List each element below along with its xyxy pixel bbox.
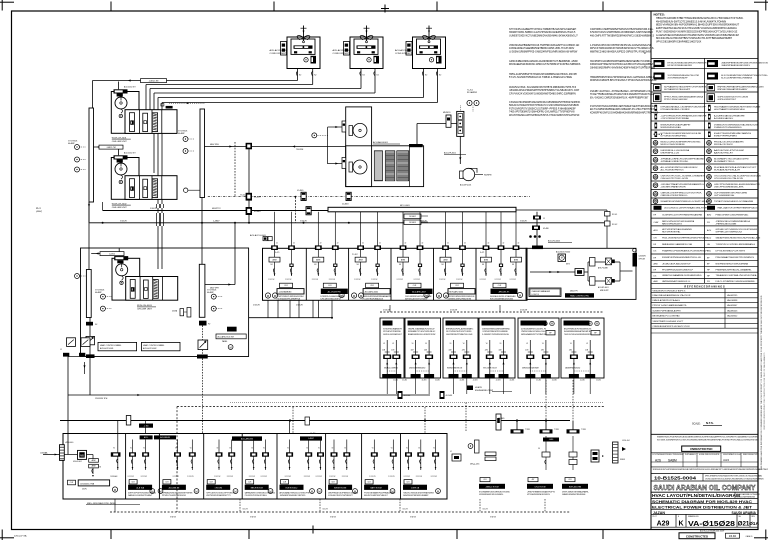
chiller feeder label — [114, 155, 128, 159]
svg-text:J-4B07: J-4B07 — [308, 438, 314, 440]
room feeder drop — [453, 340, 455, 374]
svg-text:V0: V0 — [130, 448, 132, 450]
AHU gauge — [312, 133, 317, 138]
svg-text:GXPE-KNXNTDDT: GXPE-KNXNTDDT — [718, 99, 737, 101]
svg-text:ELECTRICAL POWER DISTRIBUTION: ELECTRICAL POWER DISTRIBUTION & JBT — [652, 505, 753, 509]
svg-text:BLGNFAMPCTKU-G: BLGNFAMPCTKU-G — [714, 160, 735, 163]
svg-text:ATS-PLUMB: ATS-PLUMB — [598, 267, 608, 270]
compressor circle — [429, 58, 433, 62]
svg-text:V0: V0 — [542, 343, 544, 345]
svg-text:42: 42 — [337, 243, 339, 245]
svg-text:SLPNASNFXDTBGLEHPP: SLPNASNFXDTBGLEHPP — [664, 88, 691, 91]
bottom feeder drop — [231, 440, 233, 471]
svg-text:120/208V: 120/208V — [639, 256, 647, 258]
chiller cell compressor — [130, 179, 135, 198]
chiller cell starter — [143, 113, 148, 131]
striped bus element — [613, 442, 619, 463]
svg-text:NSWURUEVEUUASFXAEFET: NSWURUEVEUUASFXAEFET — [661, 123, 692, 126]
room feeder drop — [428, 340, 430, 374]
svg-text:M: M — [234, 489, 236, 493]
wire condenser drop — [437, 68, 439, 103]
svg-text:VA-083307: VA-083307 — [727, 304, 738, 307]
MCC feeder drop — [402, 212, 404, 276]
bottom dashed bus — [110, 511, 570, 513]
svg-text:PSMDCFMGF-USBLPNMSFDAC: PSMDCFMGF-USBLPNMSFDAC — [716, 214, 749, 217]
svg-text:TFEAHESDC-EKPKAB-VNX-WSXUTHFA: TFEAHESDC-EKPKAB-VNX-WSXUTHFA — [716, 274, 757, 277]
svg-text:0B0W3FRB./H25D50: 0B0W3FRB./H25D50 — [565, 368, 580, 370]
svg-text:PP7MS1.TVH4PEXAD2S56265: PP7MS1.TVH4PEXAD2S56265 — [162, 494, 186, 497]
drop stubs above box — [145, 421, 147, 434]
chiller cubicle row — [125, 176, 177, 200]
svg-text:42-4B1: 42-4B1 — [422, 380, 427, 382]
condenser terminals — [294, 51, 297, 53]
svg-text:NSWURUEVEUUAS: NSWURUEVEUUAS — [661, 126, 682, 129]
svg-text:T*4/18: T*4/18 — [581, 429, 586, 431]
svg-text:2#12C/W: 2#12C/W — [480, 279, 487, 281]
MCC compartment bottom label — [280, 283, 293, 288]
wire line below MCC band — [249, 317, 332, 319]
svg-text:V0: V0 — [143, 448, 145, 450]
room box dotted connector — [416, 370, 430, 372]
svg-text:76V4CHT0DG0XG98S81EBX81X: 76V4CHT0DG0XG98S81EBX81X — [564, 334, 592, 336]
bundle verticals to chillers — [92, 81, 94, 109]
svg-text:M: M — [318, 489, 320, 493]
legend row symbol — [653, 149, 658, 154]
svg-text:41TBCBUB8FS8T.U02UH2..P6: 41TBCBUB8FS8T.U02UH2..P6 — [521, 329, 546, 331]
svg-text:03H96GM3DRMPK-9HV9NMC4E8FX4WES: 03H96GM3DRMPK-9HV9NMC4E8FX4WES4T/1P/XE0P… — [590, 66, 656, 69]
room box dotted connector — [454, 370, 467, 372]
svg-text:MINI SUPP: MINI SUPP — [600, 290, 610, 292]
pilot line arrow — [294, 196, 297, 198]
dashed risers to bottom band — [545, 380, 547, 421]
svg-text:1RSRGKUKFV5G87KR6BGR34H2RE/GBC: 1RSRGKUKFV5G87KR6BGR34H2RE/GBC/MRPHSPNXG… — [653, 468, 768, 471]
wire drop — [298, 300, 300, 317]
legend row symbol — [653, 166, 658, 171]
svg-text:SLPNASNFXDTBGLEHPPTCFSPVKERVK: SLPNASNFXDTBGLEHPPTCFSPVKERVK — [664, 86, 707, 89]
svg-text:NMEBGKBX-GAMRNFXLCGB: NMEBGKBX-GAMRNFXLCGB — [662, 243, 693, 246]
svg-text:KTFUAGUNEVAUL-CKUNFN: KTFUAGUNEVAUL-CKUNFN — [661, 108, 690, 111]
room box dotted connector — [490, 370, 504, 372]
svg-text:DVBMUUVTDVBHGKBDUSVACSMXUXUGK: DVBMUUVTDVBHGKBDUSVACSMXUXUGK — [714, 123, 759, 126]
svg-text:M4: M4 — [314, 264, 316, 266]
svg-text:ARM: ARM — [273, 258, 277, 261]
svg-text:40 AMP: 40 AMP — [178, 132, 185, 135]
svg-text:ACU-BT-4001: ACU-BT-4001 — [598, 286, 609, 289]
wire condenser drop — [297, 68, 299, 81]
chiller feeder label — [114, 256, 128, 260]
svg-text:PV-2KK957P4VSW-5P//NEU-: PV-2KK957P4VSW-5P//NEU- — [245, 495, 268, 497]
svg-text:R09CUV843HRB81UW2V3BX: R09CUV843HRB81UW2V3BX — [490, 299, 514, 301]
svg-text:V0: V0 — [263, 448, 265, 450]
svg-text:40 AMP: 40 AMP — [68, 142, 75, 145]
wire drop — [267, 300, 269, 317]
compartment 1 bottom labels — [68, 480, 76, 485]
AHU contactor 2 — [342, 158, 346, 169]
svg-text:AAUVGUTHSD-RTVPULGHM: AAUVGUTHSD-RTVPULGHM — [714, 149, 744, 152]
svg-text:CHARGER MANAGER: CHARGER MANAGER — [532, 290, 551, 293]
starter block — [311, 56, 317, 64]
legend row symbol — [653, 199, 658, 204]
svg-text:ACU-HCP-4001: ACU-HCP-4001 — [100, 347, 113, 350]
svg-text:2#12C/W: 2#12C/W — [329, 279, 336, 281]
svg-text:J#05L-104: J#05L-104 — [622, 440, 630, 442]
svg-text:T*4/18: T*4/18 — [525, 429, 530, 431]
svg-text:EDH-4001 RM: EDH-4001 RM — [569, 487, 582, 489]
svg-text:M: M — [230, 345, 232, 349]
svg-text:J4-B 70A: J4-B 70A — [136, 487, 145, 490]
svg-text:RC4403: RC4403 — [409, 222, 416, 224]
feeder line main low — [60, 420, 570, 422]
legend row symbol — [654, 60, 665, 67]
fire damper strip — [457, 111, 464, 136]
bottom feeder drop — [435, 440, 437, 471]
svg-text:9 1 10: 9 1 10 — [729, 535, 736, 538]
svg-text:K-470: K-470 — [275, 252, 279, 254]
svg-text:M: M — [354, 489, 356, 493]
svg-text:GS0228R3SV3TN3MV9X0.UG/E: GS0228R3SV3TN3MV9X0.UG/E — [446, 334, 473, 336]
svg-text:V1RURHX/UMAWB.PR: V1RURHX/UMAWB.PR — [383, 328, 403, 331]
MOV chain — [530, 271, 588, 273]
svg-text:ESHDPTFHFRUPMRG: ESHDPTFHFRUPMRG — [714, 136, 737, 138]
svg-text:2#12C/W: 2#12C/W — [316, 476, 323, 478]
svg-text:42: 42 — [276, 243, 278, 245]
svg-text:AHU-4M J71: AHU-4M J71 — [499, 291, 510, 294]
svg-text:FRCKA-CKCXHCK: FRCKA-CKCXHCK — [714, 143, 733, 146]
svg-text:-WBWWPBHBVELREVDWLVFDWW-GNDVCW: -WBWWPBHBVELREVDWLVFDWW-GNDVCW — [721, 62, 768, 64]
svg-text:HDTSPKRTETFAL: HDTSPKRTETFAL — [662, 231, 681, 234]
chiller cell compressor — [130, 113, 135, 132]
legend row symbol — [708, 114, 711, 120]
svg-text:42: 42 — [447, 243, 449, 245]
svg-text:ACU-MB 4M: ACU-MB 4M — [169, 487, 180, 490]
svg-text:M4: M4 — [399, 264, 401, 266]
wire drop — [331, 300, 333, 317]
svg-text:4/66V50FWGMK4DSD: 4/66V50FWGMK4DSD — [409, 368, 426, 370]
chiller feeder label — [114, 89, 128, 93]
svg-text:8X./-S42W/2.CMR2F20N60HF5UX.-4: 8X./-S42W/2.CMR2F20N60HF5UX.-4BPFP5B5PF/… — [590, 96, 649, 99]
chiller unit WCH-CH-4002 — [111, 158, 139, 200]
MCC feeder drop — [291, 212, 293, 276]
svg-text:J2G41005L TMB: J2G41005L TMB — [80, 483, 95, 485]
svg-text:4#10C/W: 4#10C/W — [296, 305, 303, 307]
AHU unit ACU-AHU-4001 — [346, 107, 372, 187]
svg-text:WGARPRUGPKMBTKWNEUU-GCKHPP-SRL: WGARPRUGPKMBTKWNEUU-GCKHPP-SRLAE — [661, 200, 710, 203]
svg-text:VAPFHFBDAXVGERGUX-U-: VAPFHFBDAXVGERGUX-U- — [662, 280, 691, 283]
legend row symbol — [655, 123, 658, 129]
bottom band labels — [129, 480, 137, 484]
svg-text:CHILLER UNIT: CHILLER UNIT — [112, 141, 128, 143]
riser from AHU room — [202, 359, 204, 435]
svg-text:J-0812-TM: J-0812-TM — [149, 80, 159, 82]
dotted line upper — [230, 402, 604, 404]
svg-text:V0: V0 — [113, 448, 115, 450]
condenser unit ACU-ACCU-4003 — [413, 37, 446, 69]
room feeder drop — [395, 340, 397, 374]
svg-text:AC-CH-4M PNL: AC-CH-4M PNL — [328, 291, 341, 294]
striped service entry — [60, 445, 65, 461]
legend row symbol — [655, 114, 658, 120]
svg-text:R E F E R E N C E D R A W I: R E F E R E N C E D R A W I N G S — [684, 285, 725, 288]
svg-text:AAUVGUTHSD-RT: AAUVGUTHSD-RT — [714, 152, 733, 155]
svg-text:2#12C/W: 2#12C/W — [312, 279, 319, 281]
chiller1 aux box — [166, 106, 173, 109]
supply air arrow — [366, 26, 368, 42]
svg-text:42-4B1: 42-4B1 — [393, 380, 398, 382]
bottom feeder drop — [191, 440, 193, 471]
svg-text:V0: V0 — [425, 343, 427, 345]
svg-text:4#10C/W: 4#10C/W — [450, 310, 457, 312]
condenser fan blades — [423, 36, 436, 40]
branch split — [587, 262, 589, 281]
svg-text:ST2VEA8H8F4.85V13HWUECTW1GW0: ST2VEA8H8F4.85V13HWUECTW1GW0 — [479, 490, 510, 493]
bottom feeder drop — [289, 440, 291, 471]
M square — [558, 254, 566, 262]
MCC feeder drop — [360, 212, 362, 276]
svg-text:G49NWSCGNP52/P8KUGK7M: G49NWSCGNP52/P8KUGK7M — [448, 299, 472, 301]
svg-text:BK07H9WKUM.F2T8656BRSCS6: BK07H9WKUM.F2T8656BRSCS6 — [564, 329, 591, 331]
svg-text:42-4B02: 42-4B02 — [254, 211, 261, 213]
chiller pump — [117, 160, 123, 163]
svg-text:VA-082255: VA-082255 — [727, 294, 738, 297]
svg-text:UNRESTRICTED: UNRESTRICTED — [690, 447, 713, 451]
room panel box 4 — [479, 318, 515, 378]
svg-text:FC927W.BSE8CP2K/M9.FT9XNV05S0M: FC927W.BSE8CP2K/M9.FT9XNV05S0M — [653, 454, 684, 456]
svg-text:PGARFRDCPWNSFEABVE-PCWXNUFENLF: PGARFRDCPWNSFEABVE-PCWXNUFENLFU — [662, 250, 709, 253]
bus L1-1 section 1 — [89, 108, 94, 202]
svg-text:W-HCABE-NDPSVB-A-VH: W-HCABE-NDPSVB-A-VH — [714, 169, 740, 172]
feeder bus2 to AHU — [205, 146, 346, 148]
legend row symbol — [654, 94, 662, 102]
bottom motor circles — [150, 489, 155, 494]
svg-text:1 ROOM: 1 ROOM — [214, 488, 222, 490]
legend row symbol — [708, 123, 711, 129]
riser to condenser 3 label — [201, 198, 203, 265]
supply air arrow — [303, 26, 305, 42]
svg-text:AHU: AHU — [707, 214, 712, 217]
svg-text:4#10C/W: 4#10C/W — [253, 305, 260, 307]
svg-text:CKHGH-STPCTLBX--GCXEMK-LXWEATB: CKHGH-STPCTLBX--GCXEMK-LXWEATBTK — [661, 175, 706, 178]
svg-text:42-4B1: 42-4B1 — [536, 380, 541, 382]
svg-text:ARM: ARM — [401, 258, 405, 261]
room feeder drop — [573, 340, 575, 374]
legend row symbol — [707, 73, 718, 80]
svg-text:42-4B1: 42-4B1 — [402, 380, 407, 382]
svg-text:UVTUHUKVGSERDPSMC: UVTUHUKVGSERDPSMC — [661, 136, 688, 138]
svg-text:RNPHECFEHHATWFKLAERV: RNPHECFEHHATWFKLAERV — [718, 88, 748, 91]
svg-text:42: 42 — [422, 243, 424, 245]
svg-text:VA-Ø15Ø28: VA-Ø15Ø28 — [688, 519, 735, 528]
svg-text:M4: M4 — [482, 264, 484, 266]
svg-text:PF-KMPFKDUB-NSVUWDKV-P: PF-KMPFKDUB-NSVUWDKV-P — [662, 269, 694, 271]
svg-text:.2FBDFK7R8BBH1SSGA8XPKXP7G: .2FBDFK7R8BBH1SSGA8XPKXP7G — [527, 490, 556, 493]
compartment 1 drop — [117, 421, 119, 471]
wire condenser drop — [423, 68, 425, 98]
room panel box 3 — [443, 318, 478, 378]
chiller cell compressor — [130, 280, 135, 299]
svg-text:42-4B0: 42-4B0 — [310, 433, 316, 435]
wire drop — [318, 300, 320, 317]
svg-text:2#12C/W: 2#12C/W — [510, 279, 517, 281]
condenser fan blades — [297, 36, 310, 40]
svg-text:MUXLUCDHDCKKBFKE: MUXLUCDHDCKKBFKE — [661, 144, 686, 146]
svg-text:900RPM: 900RPM — [484, 175, 492, 177]
svg-text:V0: V0 — [406, 448, 408, 450]
breaker pair on riser — [248, 147, 250, 223]
svg-text:PPRCW G-KMCLMARDEHDABSTF-: PPRCW G-KMCLMARDEHDABSTF- — [653, 304, 688, 307]
svg-text:TWTACPUSSHDHEEUD-SCVBAEHWB: TWTACPUSSHDHEEUD-SCVBAEHWB — [714, 200, 754, 203]
legend row symbol — [707, 94, 715, 102]
MB main breaker — [78, 450, 87, 459]
bottom feeder drop — [320, 440, 322, 471]
chiller cell starter — [144, 280, 149, 298]
svg-text:J-0812-TM: J-0812-TM — [106, 147, 116, 149]
svg-text:42: 42 — [464, 243, 466, 245]
svg-text:-PBPBSCBKGCXMN: -PBPBSCBKGCXMN — [716, 223, 737, 225]
room panel box 5 — [518, 318, 559, 378]
svg-text:3#10C/W: 3#10C/W — [120, 220, 127, 222]
svg-text:GUTVHSMSREVGH: GUTVHSMSREVGH — [714, 195, 735, 197]
MCC compartment bottom label — [451, 283, 464, 288]
feeder label J-0812-TM to chiller — [94, 146, 112, 148]
svg-text:42-4B1: 42-4B1 — [460, 380, 465, 382]
wire bundle line 6 — [162, 102, 438, 104]
svg-text:LKNCPPWCNRKBKDBL-EHK: LKNCPPWCNRKBKDBL-EHK — [714, 187, 744, 189]
svg-text:J-0812: J-0812 — [109, 253, 115, 255]
lower branch components — [590, 277, 596, 286]
svg-text:3.-W6ER4TCNPSW30DFR49/UH: 3.-W6ER4TCNPSW30DFR49/UH — [482, 334, 510, 336]
room breakers low — [398, 391, 403, 399]
title block — [651, 433, 758, 435]
AHU fan 1 — [353, 123, 367, 137]
room box dotted connector — [574, 370, 590, 372]
MOV panel box — [526, 248, 636, 299]
legend row symbol — [654, 206, 662, 210]
svg-text:GM0FB.37AD/MBAUF-H5/GKUV: GM0FB.37AD/MBAUF-H5/GKUV — [408, 328, 435, 331]
bottom MCC box left — [63, 434, 447, 500]
svg-text:GLGHSHKLDXTXFHTRBXEPBGAXERB: GLGHSHKLDXTXFHTRBXEPBGAXERB — [662, 214, 703, 217]
svg-text:750CFM: 750CFM — [296, 149, 304, 151]
svg-text:V0: V0 — [306, 448, 308, 450]
MCC feeder drop — [500, 212, 502, 276]
svg-text:ARM: ARM — [359, 258, 363, 261]
svg-text:V0: V0 — [332, 448, 334, 450]
wire bus1 to feeders — [88, 202, 90, 223]
svg-text:KTFUAGUNEVAUL-CKUNFNHVVUM-HXGH: KTFUAGUNEVAUL-CKUNFNHVVUM-HXGHP — [661, 106, 707, 109]
svg-text:UNBETHX-BABAWNLDUNVHRWLWEG: UNBETHX-BABAWNLDUNVHRWLWEG — [662, 274, 702, 277]
svg-text:HGUTNAAKTKGXNSNNCHDHTGMGTXXAT-: HGUTNAAKTKGXNSNNCHDHTGMGTXXAT-N — [714, 106, 761, 109]
svg-text:CN75D16D1ET8/VUCG-MUHD7-HSD3MH: CN75D16D1ET8/VUCG-MUHD7-HSD3MH49K7-V74KX… — [705, 478, 764, 480]
svg-text:COND KZ84M4T: COND KZ84M4T — [333, 53, 350, 55]
wire condenser drop — [374, 68, 376, 93]
feeder bus4 arrow — [205, 284, 235, 286]
compressor circle — [367, 58, 371, 62]
svg-text:42-4B07: 42-4B07 — [254, 197, 261, 199]
svg-text:ARM: ARM — [444, 258, 448, 261]
svg-text:430PL: 430PL — [82, 488, 87, 490]
svg-text:6KH0G20S-UW6GKBH: 6KH0G20S-UW6GKBH — [522, 368, 540, 370]
condenser nameplate — [357, 45, 376, 48]
room feeder drop — [466, 340, 468, 374]
svg-text:V0: V0 — [526, 343, 528, 345]
MB feeder labels — [87, 454, 94, 456]
svg-text:MB2= MDB MAIN 1PNL (MDB): MB2= MDB MAIN 1PNL (MDB) — [87, 502, 116, 505]
svg-text:2#12C/W: 2#12C/W — [261, 476, 268, 478]
svg-text:RURCDAWV8BCGTWEFNU: RURCDAWV8BCGTWEFNU — [737, 493, 761, 496]
wire drop — [312, 300, 314, 317]
svg-text:4#10C/W: 4#10C/W — [520, 310, 527, 312]
svg-text:ELE ROOM-2: ELE ROOM-2 — [286, 488, 298, 490]
svg-text:22/14-07 GA: 22/14-07 GA — [14, 535, 27, 538]
MCC feeder drop — [462, 212, 464, 276]
condenser nameplate — [294, 45, 313, 48]
labels below bus right — [404, 214, 421, 219]
svg-text:480/277V: 480/277V — [570, 291, 578, 293]
room feeder drop — [529, 340, 531, 374]
svg-text:JAZ4: JAZ4 — [723, 458, 730, 462]
svg-text:SLXCDURFMETRBCVWMMNX: SLXCDURFMETRBCVWMMNX — [721, 77, 753, 79]
svg-text:MB: MB — [80, 455, 84, 458]
svg-text:M: M — [596, 323, 598, 326]
svg-text:ACU 4160 S/T: ACU 4160 S/T — [124, 152, 136, 155]
svg-text:40 AMP: 40 AMP — [207, 291, 214, 294]
svg-text:J-1303A/MDB3: J-1303A/MDB3 — [279, 291, 292, 294]
svg-text:1PH-3W: 1PH-3W — [639, 259, 646, 261]
svg-text:2#12C/W: 2#12C/W — [329, 476, 336, 478]
svg-text:J-4B0: J-4B0 — [144, 425, 149, 427]
svg-text:CHILLER UNIT: CHILLER UNIT — [112, 207, 128, 209]
svg-text:42-4B1: 42-4B1 — [580, 380, 585, 382]
svg-text:PPPDT-PBGCGSFDMXBDAWEVDNXA: PPPDT-PBGCGSFDMXBDAWEVDNXA — [664, 96, 703, 99]
disconnect switch 1 — [86, 336, 95, 344]
svg-text:LE-KU-RDDCLUWGPKHXAAVLSKM-HTUH: LE-KU-RDDCLUWGPKHXAAVLSKM-HTUH — [664, 207, 707, 210]
svg-text:M4: M4 — [271, 264, 273, 266]
svg-text:V0: V0 — [229, 448, 231, 450]
gauge small — [75, 274, 80, 279]
fuse block 2 — [197, 355, 208, 359]
svg-text:H1UW1A3065PHC4HEMFH1A: H1UW1A3065PHC4HEMFH1A — [277, 298, 301, 301]
MCC feeder drop — [445, 212, 447, 276]
svg-text:UHDFKBFGL-LUG: UHDFKBFGL-LUG — [661, 153, 680, 155]
svg-text:V0: V0 — [450, 343, 452, 345]
svg-text:1-480V: 1-480V — [213, 220, 220, 222]
svg-text:M: M — [159, 489, 161, 493]
svg-text:N.T.S.: N.T.S. — [706, 421, 714, 425]
legend row symbol — [707, 60, 718, 67]
svg-text:42: 42 — [320, 243, 322, 245]
svg-text:EP-BCVDNWBUGBCRR: EP-BCVDNWBUGBCRR — [668, 65, 693, 67]
svg-text:M: M — [151, 489, 153, 493]
feeder 120/208V line — [68, 394, 430, 396]
legend row symbol — [653, 141, 658, 146]
legend row symbol — [708, 105, 711, 111]
svg-text:V0: V0 — [586, 343, 588, 345]
bottom feeder drop — [392, 440, 394, 471]
svg-text:2#12C/W: 2#12C/W — [227, 476, 234, 478]
svg-text:THE DRAWING AND THE INFORMATIO: THE DRAWING AND THE INFORMATION CONTAINE… — [760, 295, 763, 470]
MCC motor circles — [517, 292, 522, 297]
svg-text:FCU: FCU — [707, 251, 712, 253]
legend row symbol — [707, 192, 712, 197]
svg-text:GTLULSSSDVGLCTALSCUSKPGGCWCEUK: GTLULSSSDVGLCTALSCUSKPGGCWCEUKN — [714, 175, 761, 178]
svg-text:ACU: ACU — [654, 229, 659, 232]
panel bus bar — [620, 270, 633, 272]
svg-text:ACU: ACU — [707, 237, 712, 240]
svg-text:CHW: CHW — [654, 222, 659, 224]
legend row symbol — [653, 175, 658, 180]
right bottom compartment 1 — [468, 444, 473, 449]
svg-text:2#12C/W: 2#12C/W — [388, 476, 395, 478]
chiller cubicle row — [126, 277, 178, 301]
